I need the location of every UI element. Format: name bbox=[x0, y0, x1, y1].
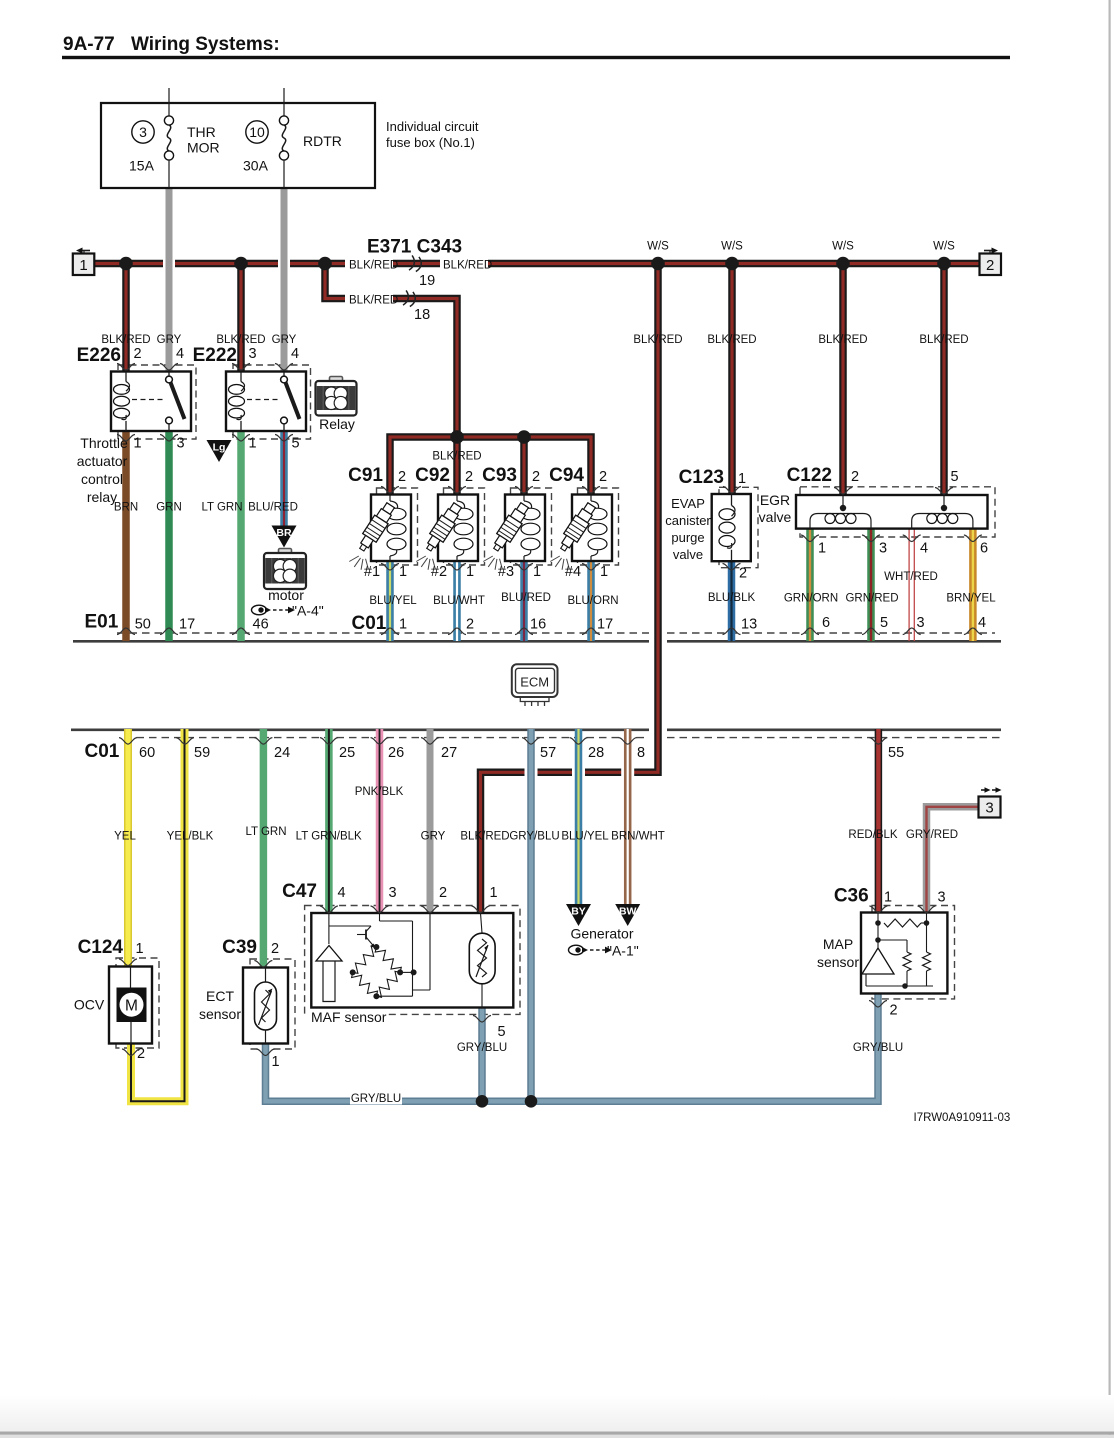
connector row E01/C01 dashed line bbox=[117, 632, 649, 634]
wire PNK/BLK C01 pin26 to C47 pin3 bbox=[376, 729, 384, 913]
svg-text:1: 1 bbox=[272, 1054, 280, 1070]
svg-text:sensor: sensor bbox=[817, 954, 859, 970]
svg-text:W/S: W/S bbox=[933, 241, 955, 253]
svg-text:2: 2 bbox=[466, 616, 474, 632]
OCV C124 bbox=[109, 967, 152, 1044]
svg-text:ECM: ECM bbox=[520, 675, 549, 690]
svg-text:BLK/RED: BLK/RED bbox=[707, 334, 756, 346]
svg-text:BLU/RED: BLU/RED bbox=[501, 592, 551, 604]
svg-text:3: 3 bbox=[389, 885, 397, 901]
wire GRN/ORN C122 pin1 to C01 pin6 bbox=[806, 529, 814, 642]
svg-text:55: 55 bbox=[888, 745, 904, 761]
svg-text:C01: C01 bbox=[352, 613, 387, 634]
wire BLU/YEL injector #1 to C01 pin1 bbox=[386, 561, 394, 642]
wire BLK/RED W/S drop to C122 pin5 bbox=[940, 264, 948, 496]
MAP sensor C36 dashed connector box bbox=[872, 906, 955, 999]
svg-text:2: 2 bbox=[986, 257, 994, 274]
svg-text:M: M bbox=[125, 998, 138, 1015]
svg-text:2: 2 bbox=[134, 346, 142, 362]
svg-text:BLK/RED: BLK/RED bbox=[633, 334, 682, 346]
svg-text:PNK/BLK: PNK/BLK bbox=[355, 786, 404, 798]
wire LT GRN E222 pin1 to E01 pin46 bbox=[237, 431, 245, 642]
svg-text:24: 24 bbox=[274, 745, 290, 761]
junction node on main bus x=241 bbox=[234, 257, 248, 271]
svg-text:canister: canister bbox=[665, 513, 711, 528]
MAP sensor C36 bbox=[861, 913, 947, 994]
wire WHT/RED C122 pin4 to C01 pin3 bbox=[908, 529, 910, 642]
svg-text:C123: C123 bbox=[679, 467, 724, 488]
svg-text:W/S: W/S bbox=[832, 241, 854, 253]
svg-text:2: 2 bbox=[851, 469, 859, 485]
svg-text:30A: 30A bbox=[243, 158, 269, 174]
junction node on main bus x=126 bbox=[119, 257, 133, 271]
svg-text:Wiring Systems:: Wiring Systems: bbox=[131, 34, 280, 55]
svg-text:BRN/WHT: BRN/WHT bbox=[611, 831, 665, 843]
svg-text:27: 27 bbox=[441, 745, 457, 761]
svg-text:C93: C93 bbox=[482, 465, 517, 486]
svg-text:3: 3 bbox=[985, 800, 993, 817]
junction node injector bus C93 bbox=[517, 430, 531, 444]
svg-text:4: 4 bbox=[920, 541, 928, 557]
svg-text:BLK/RED: BLK/RED bbox=[349, 259, 398, 271]
svg-text:1: 1 bbox=[249, 436, 257, 452]
svg-text:BLU/ORN: BLU/ORN bbox=[567, 595, 618, 607]
svg-text:C124: C124 bbox=[78, 937, 124, 958]
svg-text:17: 17 bbox=[597, 616, 613, 632]
svg-text:18: 18 bbox=[414, 307, 430, 323]
injector C94 dashed connector box bbox=[578, 488, 619, 565]
fuse 3 15A THR MOR bbox=[168, 88, 170, 116]
relay E222 bbox=[226, 372, 306, 432]
svg-text:C39: C39 bbox=[222, 937, 257, 958]
wire GRN/RED C122 pin3 to C01 pin5 bbox=[867, 529, 875, 642]
svg-text:3: 3 bbox=[917, 615, 925, 631]
injector C93 dashed connector box bbox=[511, 488, 552, 565]
svg-text:1: 1 bbox=[533, 564, 541, 580]
svg-text:Lg: Lg bbox=[213, 442, 226, 454]
svg-text:EGR: EGR bbox=[760, 492, 790, 508]
svg-text:4: 4 bbox=[291, 346, 299, 362]
svg-text:BRN: BRN bbox=[114, 502, 138, 514]
net label BY (triangle) generator bbox=[566, 904, 591, 926]
svg-text:GRY/BLU: GRY/BLU bbox=[457, 1042, 507, 1054]
EGR valve C122 bbox=[796, 495, 988, 529]
svg-text:EVAP: EVAP bbox=[671, 496, 705, 511]
svg-text:LT GRN: LT GRN bbox=[201, 502, 242, 514]
svg-text:GRY/BLU: GRY/BLU bbox=[853, 1042, 903, 1054]
wire BLU/RED E222 pin5 to motor BR bbox=[280, 431, 288, 527]
svg-text:Generator: Generator bbox=[570, 926, 633, 942]
svg-text:BY: BY bbox=[571, 906, 586, 918]
svg-text:60: 60 bbox=[139, 745, 155, 761]
junction node on main bus x=658 bbox=[651, 257, 665, 271]
svg-text:BLU/YEL: BLU/YEL bbox=[369, 595, 417, 607]
main power bus BLK/RED bbox=[95, 260, 980, 268]
MAF sensor C47 bbox=[311, 913, 513, 1008]
wire BLK/RED W/S long drop through C01 to C47 pin1 bbox=[649, 626, 667, 650]
svg-text:GRY/BLU: GRY/BLU bbox=[351, 1093, 401, 1105]
svg-text:25: 25 bbox=[339, 745, 355, 761]
svg-text:E01: E01 bbox=[85, 612, 119, 633]
svg-text:BLK/RED: BLK/RED bbox=[432, 451, 481, 463]
svg-text:#1: #1 bbox=[364, 564, 380, 580]
wire GRY fuse RDTR to E222 pin4 bbox=[281, 188, 288, 372]
svg-text:relay: relay bbox=[87, 489, 117, 505]
svg-text:15A: 15A bbox=[129, 158, 155, 174]
svg-text:4: 4 bbox=[978, 615, 986, 631]
injector C92 (#2) bbox=[438, 495, 478, 562]
svg-text:OCV: OCV bbox=[74, 997, 105, 1013]
svg-text:8: 8 bbox=[637, 745, 645, 761]
net label BR (triangle) to motor bbox=[272, 526, 297, 548]
wire BRN E226 pin1 to E01 pin50 bbox=[122, 431, 130, 642]
svg-text:C36: C36 bbox=[834, 886, 869, 907]
svg-text:BLU/RED: BLU/RED bbox=[248, 502, 298, 514]
svg-text:46: 46 bbox=[253, 616, 269, 632]
svg-text:GRN/ORN: GRN/ORN bbox=[784, 593, 838, 605]
svg-text:C91: C91 bbox=[348, 465, 383, 486]
svg-text:10: 10 bbox=[249, 124, 265, 140]
svg-text:BLK/RED: BLK/RED bbox=[460, 831, 509, 843]
svg-text:BLK/RED: BLK/RED bbox=[818, 334, 867, 346]
svg-text:9A-77: 9A-77 bbox=[63, 34, 115, 55]
wire GRY C01 pin27 to C47 pin2 bbox=[427, 729, 434, 913]
svg-text:59: 59 bbox=[194, 745, 210, 761]
svg-text:5: 5 bbox=[292, 436, 300, 452]
injector C91 (#1) bbox=[371, 495, 411, 562]
svg-text:1: 1 bbox=[399, 616, 407, 632]
svg-text:RED/BLK: RED/BLK bbox=[848, 829, 898, 841]
svg-text:1: 1 bbox=[399, 564, 407, 580]
svg-text:BLK/RED: BLK/RED bbox=[919, 334, 968, 346]
svg-text:purge: purge bbox=[671, 530, 704, 545]
svg-text:2: 2 bbox=[599, 469, 607, 485]
svg-text:LT GRN/BLK: LT GRN/BLK bbox=[296, 831, 362, 843]
svg-text:BLK/RED: BLK/RED bbox=[443, 259, 492, 271]
fuse 10 30A RDTR bbox=[283, 88, 285, 116]
injector C93 (#3) bbox=[505, 495, 545, 562]
svg-text:GRY/RED: GRY/RED bbox=[906, 829, 958, 841]
page edge right bbox=[1109, 0, 1111, 1438]
svg-text:2: 2 bbox=[137, 1046, 145, 1062]
ECM boundary solid line (upper) bbox=[73, 640, 649, 643]
svg-text:2: 2 bbox=[739, 566, 747, 582]
svg-text:LT GRN: LT GRN bbox=[245, 826, 286, 838]
svg-text:4: 4 bbox=[338, 885, 346, 901]
net label BW (triangle) generator bbox=[615, 904, 640, 926]
svg-text:1: 1 bbox=[738, 471, 746, 487]
svg-text:Relay: Relay bbox=[319, 416, 355, 432]
svg-text:6: 6 bbox=[980, 541, 988, 557]
wire GRY/BLU C01 pin57 down to bottom junction bbox=[527, 729, 535, 1100]
relay E226 (throttle actuator control relay) bbox=[111, 372, 191, 432]
svg-text:BRN/YEL: BRN/YEL bbox=[946, 593, 996, 605]
svg-text:3: 3 bbox=[177, 436, 185, 452]
svg-text:GRY/BLU: GRY/BLU bbox=[509, 831, 559, 843]
wire BLU/ORN injector #4 to C01 pin17 bbox=[587, 561, 595, 642]
svg-text:YEL/BLK: YEL/BLK bbox=[167, 831, 214, 843]
svg-text:5: 5 bbox=[951, 469, 959, 485]
svg-text:3: 3 bbox=[879, 541, 887, 557]
svg-text:6: 6 bbox=[822, 615, 830, 631]
wire GRY/RED from box3 to C36 pin3 bbox=[927, 807, 979, 913]
wire BLU/BLK C123 pin2 to C01 pin13 bbox=[728, 561, 736, 642]
svg-text:GRY: GRY bbox=[157, 334, 182, 346]
junction node on main bus x=843 bbox=[836, 257, 850, 271]
svg-text:2: 2 bbox=[890, 1003, 898, 1019]
wire BRN/WHT C01 pin8 to generator BW bbox=[624, 729, 632, 905]
wire BRN/YEL C122 pin6 to C01 pin4 bbox=[969, 529, 977, 642]
connector chevrons (component pins) bbox=[117, 364, 135, 371]
junction node GRY/BLU at MAF pin5 bbox=[476, 1095, 489, 1108]
svg-text:motor: motor bbox=[268, 587, 304, 603]
svg-text:I7RW0A910911-03: I7RW0A910911-03 bbox=[914, 1112, 1011, 1124]
relay icon bbox=[330, 377, 343, 383]
svg-text:3: 3 bbox=[249, 346, 257, 362]
svg-text:BLU/WHT: BLU/WHT bbox=[433, 595, 485, 607]
individual circuit fuse box No.1 bbox=[101, 103, 375, 188]
wire YEL/BLK C01 pin59 loop to C124 pin2 bbox=[131, 729, 185, 1101]
svg-text:5: 5 bbox=[498, 1024, 506, 1040]
wire BLK/RED bus to E226 pin2 bbox=[122, 264, 130, 373]
injector C94 (#4) bbox=[572, 495, 612, 562]
svg-text:C94: C94 bbox=[549, 465, 584, 486]
svg-text:THR: THR bbox=[187, 124, 216, 140]
relay E222 dashed connector box bbox=[233, 365, 311, 439]
wire YEL C01 pin60 to C124 pin1 bbox=[124, 729, 132, 967]
EVAP canister purge valve C123 bbox=[712, 494, 751, 561]
svg-text:C47: C47 bbox=[282, 881, 317, 902]
svg-text:2: 2 bbox=[532, 469, 540, 485]
svg-text:2: 2 bbox=[439, 885, 447, 901]
wire BLK/RED bus to E222 pin3 bbox=[237, 264, 245, 373]
svg-text:3: 3 bbox=[938, 890, 946, 906]
svg-text:5: 5 bbox=[880, 615, 888, 631]
svg-text:YEL: YEL bbox=[114, 831, 136, 843]
injector C92 dashed connector box bbox=[444, 488, 485, 565]
junction node on main bus x=732 bbox=[725, 257, 739, 271]
svg-text:2: 2 bbox=[271, 941, 279, 957]
ECM boundary solid line (lower) bbox=[71, 728, 649, 731]
junction node injector bus C92 bbox=[450, 430, 464, 444]
junction node GRY/BLU at C01 pin57 bbox=[525, 1095, 538, 1108]
MAF sensor C47 dashed connector box bbox=[305, 906, 520, 1015]
svg-text:GRY: GRY bbox=[272, 334, 297, 346]
wire LT GRN C01 pin24 to C39 pin2 bbox=[260, 729, 268, 968]
net label Lg (triangle) bbox=[207, 440, 232, 462]
svg-text:57: 57 bbox=[540, 745, 556, 761]
wire BLU/YEL C01 pin28 to generator BY bbox=[575, 729, 583, 905]
svg-text:BLU/YEL: BLU/YEL bbox=[561, 831, 609, 843]
ECM bbox=[512, 664, 558, 697]
svg-text:actuator: actuator bbox=[77, 453, 128, 469]
wire BLU/RED injector #3 to C01 pin16 bbox=[520, 561, 528, 642]
node box 3 (off-page right lower) bbox=[979, 797, 1001, 818]
svg-text:BLK/RED: BLK/RED bbox=[349, 294, 398, 306]
wire BLK/RED branch 18 to injector bus bbox=[325, 264, 457, 438]
junction node on main bus x=325 bbox=[318, 257, 332, 271]
svg-text:19: 19 bbox=[419, 273, 435, 289]
wire GRN E226 pin3 to E01 pin17 bbox=[165, 431, 173, 642]
svg-text:Individual circuit: Individual circuit bbox=[386, 119, 479, 134]
svg-text:fuse box (No.1): fuse box (No.1) bbox=[386, 135, 475, 150]
svg-text:2: 2 bbox=[465, 469, 473, 485]
svg-text:BW: BW bbox=[619, 906, 637, 918]
junction node on main bus x=944 bbox=[937, 257, 951, 271]
svg-text:ECT: ECT bbox=[206, 988, 234, 1004]
ECT sensor C39 dashed connector box bbox=[250, 959, 295, 1049]
svg-text:E226: E226 bbox=[77, 345, 121, 366]
svg-text:valve: valve bbox=[673, 547, 703, 562]
svg-text:GRN: GRN bbox=[156, 502, 182, 514]
svg-text:16: 16 bbox=[530, 616, 546, 632]
svg-text:#3: #3 bbox=[498, 564, 514, 580]
svg-text:"A-4": "A-4" bbox=[292, 603, 324, 619]
wire BLU/WHT injector #2 to C01 pin2 bbox=[453, 561, 461, 642]
svg-text:17: 17 bbox=[179, 616, 195, 632]
svg-text:1: 1 bbox=[79, 257, 87, 274]
wire LT GRN/BLK C01 pin25 to C47 pin4 bbox=[325, 729, 333, 913]
svg-text:C122: C122 bbox=[787, 465, 832, 486]
node box 2 (off-page right) bbox=[980, 254, 1002, 276]
svg-text:GRY: GRY bbox=[421, 831, 446, 843]
svg-text:W/S: W/S bbox=[647, 241, 669, 253]
OCV C124 dashed connector box bbox=[116, 958, 159, 1048]
wire GRY fuse THR MOR to E226 pin4 bbox=[166, 188, 173, 372]
page edge bottom bbox=[0, 0, 1, 1]
svg-text:1: 1 bbox=[134, 436, 142, 452]
injector C91 dashed connector box bbox=[377, 488, 418, 565]
key icon to A-4 bbox=[252, 605, 267, 615]
svg-text:valve: valve bbox=[759, 509, 792, 525]
svg-text:sensor: sensor bbox=[199, 1006, 241, 1022]
svg-text:W/S: W/S bbox=[721, 241, 743, 253]
svg-text:E222: E222 bbox=[193, 345, 237, 366]
wire GRY/BLU C39 pin1 to junction, bottom run to MAP pin2 bbox=[266, 994, 879, 1102]
svg-text:1: 1 bbox=[600, 564, 608, 580]
svg-text:BLU/BLK: BLU/BLK bbox=[708, 592, 756, 604]
svg-text:"A-1": "A-1" bbox=[607, 943, 639, 959]
svg-text:control: control bbox=[81, 471, 123, 487]
svg-text:2: 2 bbox=[398, 469, 406, 485]
svg-text:1: 1 bbox=[884, 890, 892, 906]
svg-text:1: 1 bbox=[818, 541, 826, 557]
ECT sensor C39 bbox=[243, 968, 288, 1044]
EVAP valve C123 dashed connector box bbox=[719, 487, 758, 567]
svg-text:E371 C343: E371 C343 bbox=[367, 237, 462, 258]
svg-text:4: 4 bbox=[176, 346, 184, 362]
svg-text:C92: C92 bbox=[415, 465, 450, 486]
svg-text:50: 50 bbox=[135, 616, 151, 632]
svg-text:28: 28 bbox=[588, 745, 604, 761]
injector feed bus BLK/RED bbox=[390, 437, 591, 495]
svg-text:13: 13 bbox=[741, 616, 757, 632]
wire BLK/RED W/S drop to C123 pin1 bbox=[728, 264, 736, 495]
svg-text:GRN/RED: GRN/RED bbox=[845, 593, 898, 605]
EGR valve C122 dashed connector box bbox=[800, 487, 995, 537]
wire BLK/RED W/S drop to C122 pin2 bbox=[839, 264, 847, 496]
EGR coil node pins bbox=[840, 505, 846, 511]
svg-text:MOR: MOR bbox=[187, 140, 220, 156]
svg-text:MAP: MAP bbox=[823, 936, 853, 952]
wire GRY/BLU MAF pin5 down to junction bbox=[478, 1008, 486, 1100]
motor icon (radiator fan motor) bbox=[279, 549, 292, 555]
svg-text:C01: C01 bbox=[85, 741, 120, 762]
wire labels bottom bbox=[350, 1092, 402, 1105]
svg-text:WHT/RED: WHT/RED bbox=[884, 571, 938, 583]
svg-text:26: 26 bbox=[388, 745, 404, 761]
node box 1 (off-page left) bbox=[73, 254, 95, 276]
svg-text:3: 3 bbox=[139, 124, 147, 140]
relay E226 dashed connector box bbox=[118, 365, 196, 439]
svg-text:1: 1 bbox=[136, 941, 144, 957]
svg-text:BR: BR bbox=[276, 527, 292, 539]
svg-text:#2: #2 bbox=[431, 564, 447, 580]
svg-text:#4: #4 bbox=[565, 564, 581, 580]
svg-text:1: 1 bbox=[490, 885, 498, 901]
wire RED/BLK C01 pin55 to C36 pin1 bbox=[875, 729, 883, 913]
svg-text:MAF sensor: MAF sensor bbox=[311, 1009, 387, 1025]
connector row C01 (lower) dashed line bbox=[124, 737, 649, 739]
svg-text:RDTR: RDTR bbox=[303, 133, 342, 149]
svg-text:1: 1 bbox=[466, 564, 474, 580]
